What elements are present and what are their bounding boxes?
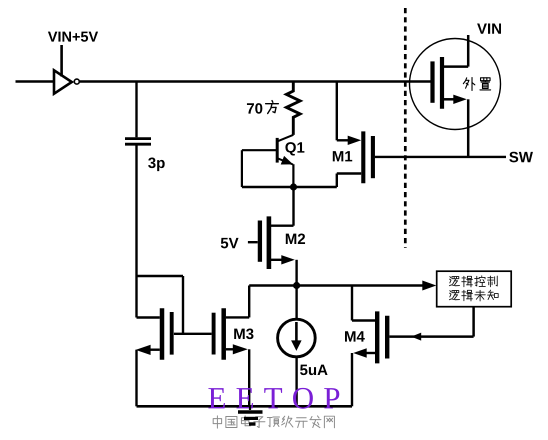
net label VIN+5V with stub — [48, 32, 98, 77]
capacitor C1 bottom lead down to mirror M5 — [135, 145, 137, 317]
wire: bottom ground bus — [137, 405, 353, 408]
label M1 — [333, 151, 352, 161]
transistor M1 — [337, 82, 373, 188]
wire: SW net from M1 gate bar — [375, 156, 506, 158]
label M2 — [286, 234, 305, 244]
wire: input stub to inverter — [16, 80, 54, 82]
node: M2 source / bus junction — [293, 282, 300, 289]
node: Q1 emitter / M2 drain junction — [290, 183, 297, 190]
transistor M2 — [248, 187, 297, 286]
label M3 — [234, 329, 253, 340]
wire: shared gate line M5-M3 — [174, 333, 212, 335]
transistor M4 (mirrored) — [352, 286, 387, 407]
current source I1 — [278, 286, 316, 407]
wire: middle bus — [249, 284, 424, 286]
net label SW — [509, 152, 533, 163]
transistor Q1 (diode-connected NPN) — [277, 135, 293, 187]
transistor M5 (left mirror device) — [136, 308, 172, 406]
watermark 中国电子顶级开发网 — [213, 416, 334, 428]
resistor R1 — [286, 82, 300, 135]
capacitor C1 value 3p — [148, 158, 165, 172]
transistor M3 — [214, 286, 250, 407]
external pass transistor (circled PMOS) — [410, 39, 501, 157]
resistor R1 value 70方 — [247, 101, 278, 114]
inverter U1 — [54, 70, 79, 93]
wire: branch from cap lead to mirror gates — [137, 276, 184, 334]
wire: main top rail — [80, 80, 431, 82]
net label VIN — [477, 23, 501, 33]
wire: Q1 base feedback loop — [242, 150, 337, 187]
arrow into logic box — [422, 281, 436, 291]
ground — [238, 406, 263, 424]
net VIN stub — [467, 35, 470, 67]
label Q1 — [285, 142, 304, 155]
box text 逻辑控制 / 逻辑未知 — [449, 276, 498, 301]
capacitor C1 plates — [125, 139, 151, 145]
logic control box — [437, 271, 512, 307]
watermark EETOP — [208, 388, 339, 409]
capacitor C1 top lead — [135, 82, 137, 138]
label 5V — [221, 238, 239, 248]
boundary: dashed chip edge — [404, 8, 407, 248]
label M4 — [345, 331, 365, 341]
wire: logic box to M4 gate — [390, 307, 474, 341]
label 5uA — [300, 365, 327, 375]
label 外置 — [463, 78, 490, 91]
